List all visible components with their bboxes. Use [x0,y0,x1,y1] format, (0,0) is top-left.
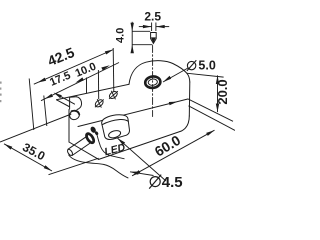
ext e2 [86,78,88,94]
arrow 2.5 right [156,25,165,28]
ext e1b [44,96,47,127]
arrow O5 leader [163,76,171,82]
arrow 4.0 bottom [131,45,134,54]
ext 20.0 top [186,73,223,77]
boss outline [102,115,130,140]
notch leader arrow line [56,94,75,105]
label Ø4.5 symbol [149,175,161,189]
arrow 2.5 left [143,25,152,28]
ext 20.0 bottom [188,99,233,121]
ext 35.0 right [49,158,99,175]
dim 60.0 line [132,130,214,176]
notch corner bold arc [72,111,80,115]
ext left hole [97,70,99,99]
centerline [152,46,154,117]
dim 2.5 line [139,26,152,28]
svg-text:5.0: 5.0 [198,59,215,73]
arrow 20 top [216,75,219,84]
ext X1 [189,106,236,131]
arrow 60 left [132,170,140,176]
arrow 42.5 right [105,50,114,55]
dim 35.0 line [4,144,52,171]
hole Ø5 outer [144,75,161,88]
boss top line [102,119,128,124]
cable side 2 [68,136,88,150]
dim 4.0 ext lines [132,30,150,32]
small dot [95,132,98,136]
leader LED [97,135,125,159]
arrow 42.5 left [38,78,47,83]
arrow 35 left [4,144,12,150]
left margin tick marks [0,82,2,103]
LED dot [90,126,96,133]
left small hole [94,98,105,108]
svg-text:2.5: 2.5 [144,10,161,24]
notch corner ellipse [68,109,81,122]
sensing nub [151,33,157,44]
leader Ø4.5 [130,172,154,176]
wire bottom-left edge [69,142,99,159]
wire left vertical edge [68,110,70,143]
dim 42.5 line [34,50,114,85]
cable side 1 [72,142,92,156]
arrow notch leader [54,93,62,99]
dim 17.5 / 10.0 line [41,63,119,101]
arrow boss leader [118,138,126,145]
wire left top corner edge [57,100,70,107]
wire front-bottom edge [99,132,180,160]
wire front-top edge [78,99,188,127]
cable end cap [67,149,74,157]
arrow 60 right [206,130,214,136]
arrow 17.5 left [45,94,54,99]
arrow 20 bottom [216,104,219,113]
notch hook [77,97,82,110]
notch top edge [70,96,77,99]
arrow O4.5 leader [130,172,139,175]
arrowheads [4,23,219,176]
label Ø5.0 symbol [187,60,196,71]
svg-text:4.0: 4.0 [115,28,127,43]
ext e3 [112,48,115,92]
svg-text:20.0: 20.0 [215,79,230,104]
wire cable droop [69,155,128,178]
arrow 35 right [44,165,52,171]
wire bottom-right arc [180,116,189,132]
arrow 10.0 right [101,65,110,70]
ext 35.0 left [0,114,71,142]
leader boss [118,138,167,181]
wire top arc of rounded end [129,61,190,85]
wire back-top edge [57,84,130,100]
hole Ø5 inner [148,78,158,85]
arrow 4.0 top [131,23,134,32]
dim 4.0 line [131,22,133,52]
dim 2.5 ext lines [151,23,153,32]
boss face ellipse [108,129,122,139]
leader Ø5.0 [163,68,188,82]
arrow 17.5 right [75,77,84,82]
ext e1 [29,79,34,131]
cable ring [85,132,95,144]
wire right silhouette [188,82,191,116]
dim 20.0 line [217,75,219,112]
right small hole [108,90,119,100]
notch left line [69,97,71,109]
svg-text:4.5: 4.5 [162,174,183,191]
arrow front edge junction [169,102,178,106]
